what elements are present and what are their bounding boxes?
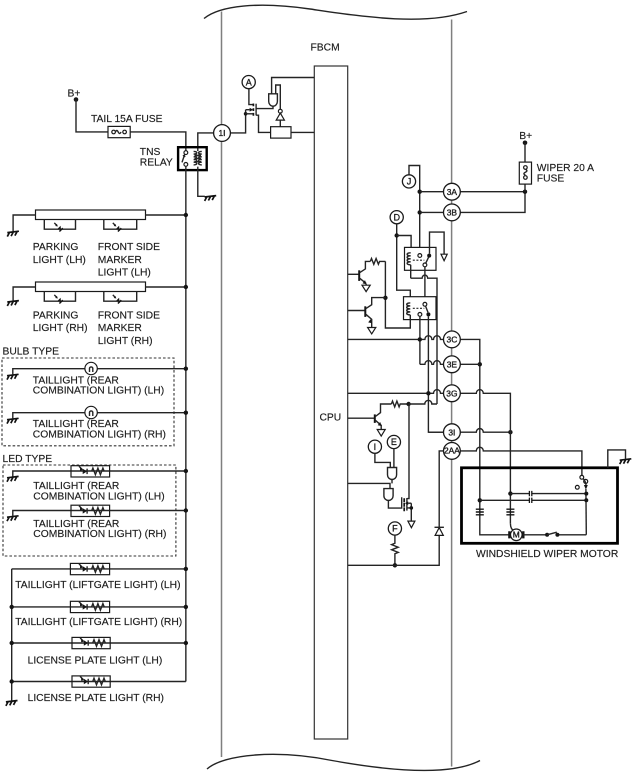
LED taillight liftgate LH: [70, 563, 109, 574]
wire CPU to 3G, hop: [348, 390, 444, 394]
bulb parking light RH: [44, 292, 75, 302]
wire coil K2 to node, hops contact wire: [411, 275, 437, 404]
FBCM torn bottom edge: [207, 754, 480, 770]
pin circle 3B: [444, 204, 461, 221]
gate block box: [271, 127, 291, 138]
parking light LH housing: [36, 210, 146, 220]
svg-text:FBCM: FBCM: [311, 43, 340, 54]
FBCM left boundary wire: [221, 12, 223, 758]
svg-text:3A: 3A: [447, 187, 458, 197]
svg-text:1I: 1I: [219, 128, 226, 138]
mosfet Q5 channel: [406, 498, 408, 511]
ground (wiper motor case): [608, 450, 626, 468]
junction: [10, 679, 14, 683]
inverter (bubble + triangle): [278, 109, 282, 113]
FBCM right boundary wire: [451, 20, 453, 767]
junction: [184, 367, 188, 371]
bulb taillight LH: [85, 362, 97, 374]
LED taillight RH: [71, 505, 110, 516]
pin 3A wire to wiper fuse: [420, 191, 525, 193]
capacitor C2: [480, 499, 587, 501]
wire 3C right to motor: [460, 339, 510, 534]
wire taillight bulb RH: [13, 413, 186, 419]
svg-text:E: E: [391, 437, 397, 447]
wire taillight liftgate LH: [12, 568, 186, 570]
pin circle 3C: [444, 331, 461, 348]
motor M: [510, 523, 514, 531]
wire TNS coil to ground: [198, 167, 205, 197]
wire 3I to wiper motor, hop: [428, 429, 510, 433]
relay K3 (lower): [404, 297, 437, 320]
ground (parking light LH): [7, 231, 19, 236]
wire license plate light LH: [12, 642, 186, 644]
junction: [184, 567, 188, 571]
svg-text:TAILLIGHT (REAR: TAILLIGHT (REAR: [33, 481, 119, 492]
svg-text:FUSE: FUSE: [537, 174, 565, 185]
wire 2AA to park switch, hop: [460, 447, 582, 475]
transistor Q3: [348, 417, 375, 419]
svg-text:LIGHT (RH): LIGHT (RH): [33, 323, 88, 334]
wire housing LH to ground: [13, 215, 35, 231]
pin circle 3G: [444, 385, 461, 402]
wire CPU to diode to 2AA: [348, 535, 440, 565]
windshield wiper motor box: [462, 468, 618, 544]
wire taillight liftgate RH: [12, 606, 186, 608]
wire taillight LED LH: [13, 471, 186, 477]
node D circle: [390, 211, 403, 224]
svg-text:3E: 3E: [447, 359, 458, 369]
resistor R1: [370, 259, 385, 265]
FBCM torn top edge: [204, 5, 467, 19]
resistor R3: [391, 401, 408, 407]
parking light RH housing: [36, 282, 146, 292]
svg-text:LIGHT (RH): LIGHT (RH): [98, 336, 153, 347]
bulb front side marker LH: [104, 220, 137, 230]
pin 3B wire: [420, 192, 525, 213]
transistor Q1: [348, 273, 359, 275]
wire relay K3 NO contact to 3G/3I: [428, 316, 443, 432]
junction: [10, 605, 14, 609]
junction: [184, 213, 188, 217]
svg-text:A: A: [246, 77, 252, 87]
pin circle 1I: [214, 125, 231, 142]
wire pin 1I to TNS relay coil: [198, 133, 214, 151]
wire fuse to TNS relay contact: [130, 132, 186, 151]
TNS relay K1: [178, 147, 207, 170]
svg-text:B+: B+: [519, 131, 532, 142]
svg-text:J: J: [407, 177, 412, 187]
svg-text:MARKER: MARKER: [98, 255, 142, 266]
svg-text:3B: 3B: [447, 208, 458, 218]
pin circle 3I: [444, 424, 461, 441]
wire CPU to driver: [272, 78, 315, 94]
wire motor bus and contact: [523, 534, 586, 536]
wire CPU to 3C, hops relay wires: [348, 336, 444, 340]
junction: [184, 469, 188, 473]
wire 3G right to motor: [460, 390, 510, 524]
wire Q5 source to arrow ground: [407, 503, 411, 521]
resistor R4: [392, 535, 399, 565]
svg-text:TAILLIGHT (LIFTGATE LIGHT) (RH: TAILLIGHT (LIFTGATE LIGHT) (RH): [15, 617, 182, 628]
pin circle 2AA: [444, 443, 461, 460]
wire mosfet drain: [256, 106, 273, 108]
LED license plate RH: [72, 676, 110, 687]
wire license plate light RH: [12, 681, 186, 683]
driver element (bullet 1): [388, 468, 397, 480]
fuse WIPER 20A: [519, 162, 531, 184]
transistor Q2: [348, 310, 365, 312]
LED taillight LH: [71, 466, 110, 477]
wire B+ to tail fuse: [76, 100, 108, 132]
park switch: [580, 475, 584, 479]
svg-text:WIPER 20 A: WIPER 20 A: [537, 163, 594, 174]
svg-text:I: I: [374, 442, 377, 452]
dashed box bulb type: [2, 358, 174, 446]
left bus wire for liftgate/license lights: [11, 569, 13, 701]
svg-text:MARKER: MARKER: [98, 323, 142, 334]
wire relay K2 contact chain to relay K3: [424, 267, 426, 303]
svg-text:3I: 3I: [448, 427, 455, 437]
wire taillight bulb LH: [13, 369, 186, 375]
wire Q5 drain to Q3 node: [407, 404, 409, 499]
ground (taillight LED RH): [7, 516, 19, 521]
junction: [184, 285, 188, 289]
arrow ground (Q1 emitter): [365, 284, 367, 285]
svg-text:3C: 3C: [447, 335, 458, 345]
ground (parking light RH): [7, 301, 19, 306]
svg-text:TAILLIGHT (LIFTGATE LIGHT) (LH: TAILLIGHT (LIFTGATE LIGHT) (LH): [15, 580, 180, 591]
node I circle: [368, 440, 381, 453]
capacitor C1: [510, 493, 586, 495]
svg-text:PARKING: PARKING: [33, 310, 79, 321]
node E circle: [387, 435, 400, 448]
mosfet Q4 channel: [255, 104, 257, 116]
choke (left): [476, 509, 484, 515]
wire 3E from relay K3 NC: [420, 361, 444, 365]
LED taillight liftgate RH: [70, 601, 109, 612]
svg-text:LIGHT (LH): LIGHT (LH): [98, 268, 151, 279]
node F circle: [388, 522, 401, 535]
svg-text:FRONT SIDE: FRONT SIDE: [98, 310, 160, 321]
wire taillight LED RH: [13, 511, 186, 516]
svg-text:LED TYPE: LED TYPE: [3, 454, 53, 465]
wire coil K3 bottom to transistor node: [385, 261, 410, 328]
wire J to 3A node: [409, 166, 420, 254]
wire 3E right: [460, 363, 480, 365]
node A circle: [242, 76, 255, 89]
svg-text:LICENSE PLATE LIGHT (LH): LICENSE PLATE LIGHT (LH): [28, 656, 163, 667]
bulb taillight RH: [85, 406, 97, 418]
wire mosfet source to box: [256, 115, 270, 132]
arrow (continuation): [441, 254, 447, 261]
ground (taillight bulb LH): [7, 374, 19, 379]
svg-text:CPU: CPU: [320, 413, 342, 424]
svg-text:RELAY: RELAY: [140, 157, 173, 168]
fuse TAIL 15A FUSE: [108, 126, 130, 137]
ground (taillight bulb RH): [7, 418, 19, 423]
node J circle: [402, 175, 415, 188]
LED license plate LH: [72, 637, 110, 648]
wire 1I to mosfet: [230, 110, 245, 133]
junction: [184, 508, 188, 512]
wire Q3 collector node to relay chain, hop: [409, 400, 437, 404]
mosfet Q5 gate bar: [403, 498, 405, 511]
wire A to MOSFET gate: [249, 89, 254, 105]
mosfet Q5 body arrow: [408, 502, 411, 504]
choke (right): [506, 509, 514, 515]
svg-text:WINDSHIELD WIPER MOTOR: WINDSHIELD WIPER MOTOR: [476, 549, 618, 560]
svg-text:PARKING: PARKING: [33, 242, 79, 253]
pin circle 3E: [444, 356, 461, 373]
wire D to relay coils: [397, 224, 411, 303]
mosfet Q4 gate bar: [252, 104, 254, 116]
svg-text:F: F: [392, 524, 398, 534]
arrow ground (Q2 emitter): [368, 328, 376, 334]
wire relay K2 common to arrow: [430, 232, 445, 254]
wire TNS contact trunk down left side: [185, 166, 187, 681]
driver element (bullet 2): [384, 489, 393, 501]
wire housing LH to trunk: [146, 214, 186, 216]
svg-text:BULB TYPE: BULB TYPE: [3, 347, 60, 358]
bulb front side marker RH: [104, 292, 137, 302]
svg-text:2AA: 2AA: [444, 445, 460, 455]
wire housing RH to trunk: [146, 286, 186, 288]
svg-text:TAIL 15A FUSE: TAIL 15A FUSE: [91, 114, 163, 125]
arrow ground (Q3 emitter): [377, 430, 385, 437]
diode D1: [435, 528, 443, 536]
svg-text:COMBINATION LIGHT) (LH): COMBINATION LIGHT) (LH): [33, 492, 164, 503]
wire relay K3 NC contact to 3C/3E: [419, 316, 421, 364]
wire driver to inverter: [276, 85, 281, 109]
svg-text:FRONT SIDE: FRONT SIDE: [98, 242, 160, 253]
ground (taillight LED LH): [7, 476, 19, 481]
relay K2 (upper): [405, 247, 437, 270]
bulb parking light LH: [44, 220, 75, 230]
svg-text:D: D: [393, 212, 400, 222]
dashed box led type: [3, 465, 176, 556]
svg-text:B+: B+: [68, 89, 81, 100]
CPU block U1: [314, 66, 347, 739]
svg-text:COMBINATION LIGHT) (RH): COMBINATION LIGHT) (RH): [33, 529, 166, 540]
svg-text:M: M: [513, 530, 520, 540]
svg-text:3G: 3G: [446, 388, 457, 398]
driver element (bullet) top cell: [269, 94, 278, 106]
pin circle 3A: [444, 183, 461, 200]
svg-text:COMBINATION LIGHT) (RH): COMBINATION LIGHT) (RH): [33, 429, 166, 440]
svg-text:LICENSE PLATE LIGHT (RH): LICENSE PLATE LIGHT (RH): [28, 693, 164, 704]
wire housing RH to ground: [13, 287, 35, 301]
junction: [10, 641, 14, 645]
junction: [184, 411, 188, 415]
svg-text:LIGHT (LH): LIGHT (LH): [33, 255, 86, 266]
wire CPU to driver 2: [348, 483, 390, 488]
ground (left bus): [6, 701, 18, 706]
svg-text:COMBINATION LIGHT) (LH): COMBINATION LIGHT) (LH): [33, 386, 164, 397]
ground (TNS relay): [205, 196, 217, 201]
wires I and E to driver: [375, 453, 390, 467]
wire box to CPU: [291, 131, 314, 133]
